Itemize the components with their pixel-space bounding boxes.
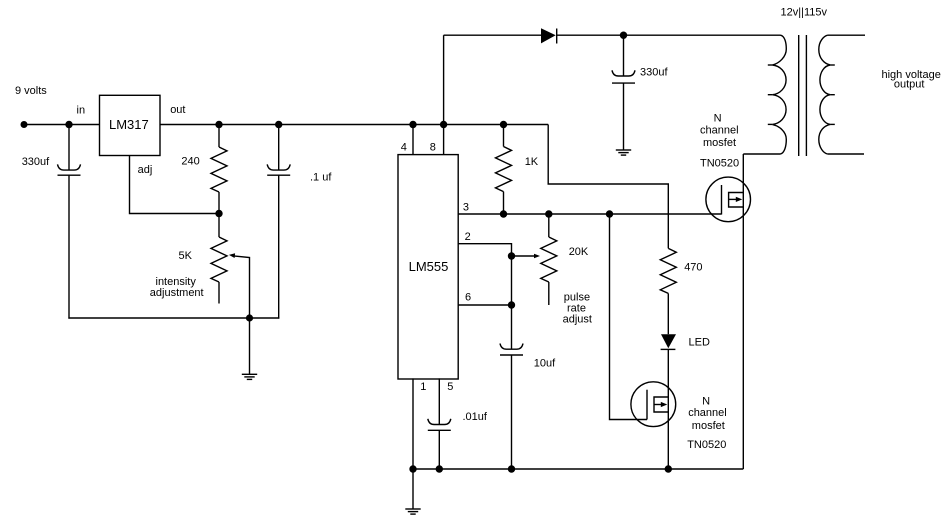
node: input cap junction xyxy=(65,121,72,128)
node: wiper junction xyxy=(508,252,515,259)
wire: Vcc rail to 470 branch xyxy=(548,125,668,249)
wire: secondary top output lead xyxy=(828,34,865,36)
ground GND2 xyxy=(616,150,631,155)
node: ground bus junction xyxy=(246,314,253,321)
wire: transformer primary bottom to Q1 xyxy=(743,153,780,155)
svg-text:LED: LED xyxy=(689,337,710,349)
ground GND3 xyxy=(405,469,420,514)
svg-text:N: N xyxy=(702,395,710,407)
wire: input to LM317 in xyxy=(24,124,100,126)
mosfet Q1 TN0520 xyxy=(706,177,751,222)
mosfet Q2 TN0520 xyxy=(631,382,676,427)
node: pin1 rail junction xyxy=(409,465,416,472)
node: 1K bottom junction xyxy=(500,210,507,217)
potentiometer R2 5K intensity adjustment xyxy=(211,214,227,304)
label: N channel mosfet (Q2) xyxy=(688,395,727,432)
wire: pin 8 xyxy=(443,125,445,155)
wire: adj pin to divider xyxy=(130,156,220,214)
wire: Vcc rail up to diode rail xyxy=(443,35,445,124)
node: 1K top junction xyxy=(500,121,507,128)
svg-text:6: 6 xyxy=(465,291,471,303)
svg-text:5: 5 xyxy=(447,381,453,393)
svg-text:N: N xyxy=(714,113,722,125)
label: N channel mosfet (Q1) xyxy=(700,113,739,150)
resistor R3 1K xyxy=(496,125,512,215)
node: 10uf rail junction xyxy=(508,465,515,472)
svg-text:8: 8 xyxy=(430,141,436,153)
svg-text:adj: adj xyxy=(138,164,153,176)
wire: bottom ground rail xyxy=(413,468,743,470)
resistor R1 240 xyxy=(211,125,227,214)
svg-text:channel: channel xyxy=(688,407,727,419)
svg-text:20K: 20K xyxy=(569,246,589,258)
node: Q2 gate branch junction xyxy=(606,210,613,217)
svg-text:output: output xyxy=(894,79,925,91)
ground GND1 xyxy=(242,318,257,379)
wire: ground bus bottom-left xyxy=(68,317,279,319)
svg-text:470: 470 xyxy=(684,262,702,274)
svg-text:9 volts: 9 volts xyxy=(15,85,47,97)
wiper of R4 xyxy=(512,254,541,259)
svg-text:LM555: LM555 xyxy=(409,259,449,274)
node: pin 4 rail junction xyxy=(409,121,416,128)
transformer T1 secondary winding xyxy=(819,35,835,154)
svg-text:in: in xyxy=(77,104,86,116)
resistor R5 470 xyxy=(660,248,676,334)
wire: pin3 branch to Q2 gate xyxy=(610,214,648,420)
svg-text:240: 240 xyxy=(181,156,199,168)
wire: Q1 drain/source vertical xyxy=(742,154,744,469)
node: pin5 rail junction xyxy=(436,465,443,472)
svg-text:3: 3 xyxy=(463,201,469,213)
node: output cap junction xyxy=(620,32,627,39)
transformer T1 primary winding xyxy=(768,35,787,154)
svg-text:330uf: 330uf xyxy=(640,66,668,78)
wire: LM317 out Vcc rail xyxy=(160,124,548,126)
wire: pin 4 xyxy=(412,125,414,155)
node: Q2 source rail junction xyxy=(665,465,672,472)
voltage regulator U1 LM317 xyxy=(100,95,161,155)
wire: pin 3 output line to Q1 gate xyxy=(458,213,721,215)
svg-text:TN0520: TN0520 xyxy=(687,439,726,451)
IC U2 LM555 timer xyxy=(398,155,458,379)
wire: LED to Q2 drain and source to rail xyxy=(667,349,669,469)
diode D1 xyxy=(541,28,557,43)
node: 20K top junction xyxy=(545,210,552,217)
svg-text:4: 4 xyxy=(401,141,407,153)
svg-text:1K: 1K xyxy=(525,156,539,168)
wire: secondary bottom output lead xyxy=(828,153,864,155)
wire: pin 2 xyxy=(458,244,511,305)
transformer T1 core xyxy=(799,35,807,156)
wire: pin 1 to ground rail xyxy=(412,378,414,469)
wire: pin 6 xyxy=(458,304,511,306)
label: pulse rate adjust xyxy=(563,292,592,326)
svg-text:LM317: LM317 xyxy=(109,117,149,132)
node: pin6 junction xyxy=(508,301,515,308)
svg-text:330uf: 330uf xyxy=(22,156,50,168)
capacitor C1 330uf input xyxy=(58,125,81,319)
svg-text:adjust: adjust xyxy=(563,314,592,326)
svg-text:channel: channel xyxy=(700,125,739,137)
svg-text:out: out xyxy=(170,104,185,116)
svg-text:2: 2 xyxy=(465,231,471,243)
svg-text:mosfet: mosfet xyxy=(703,137,736,149)
potentiometer R4 20K pulse rate adjust xyxy=(541,214,557,305)
svg-text:.01uf: .01uf xyxy=(463,411,488,423)
wiper of R2 xyxy=(229,253,250,318)
wire: top rail left of diode xyxy=(444,34,541,36)
svg-text:1: 1 xyxy=(420,381,426,393)
capacitor C2 .1uf xyxy=(267,125,290,319)
capacitor C5 .01uf xyxy=(428,378,451,469)
svg-text:adjustment: adjustment xyxy=(150,287,204,299)
node: 9V input terminal xyxy=(21,121,28,128)
node: adj divider junction xyxy=(215,210,222,217)
svg-text:mosfet: mosfet xyxy=(692,420,725,432)
svg-text:TN0520: TN0520 xyxy=(700,157,739,169)
wire: diode to transformer primary top xyxy=(557,34,781,36)
svg-text:5K: 5K xyxy=(179,250,193,262)
node: .1uf top junction xyxy=(275,121,282,128)
svg-text:12v||115v: 12v||115v xyxy=(781,6,828,18)
capacitor C4 10uf xyxy=(500,305,523,469)
capacitor C3 330uf output xyxy=(612,35,635,150)
LED D2 xyxy=(661,334,676,349)
node: pin 8 rail junction xyxy=(440,121,447,128)
svg-text:10uf: 10uf xyxy=(534,358,556,370)
node: 240 top junction xyxy=(215,121,222,128)
svg-text:.1 uf: .1 uf xyxy=(310,172,332,184)
